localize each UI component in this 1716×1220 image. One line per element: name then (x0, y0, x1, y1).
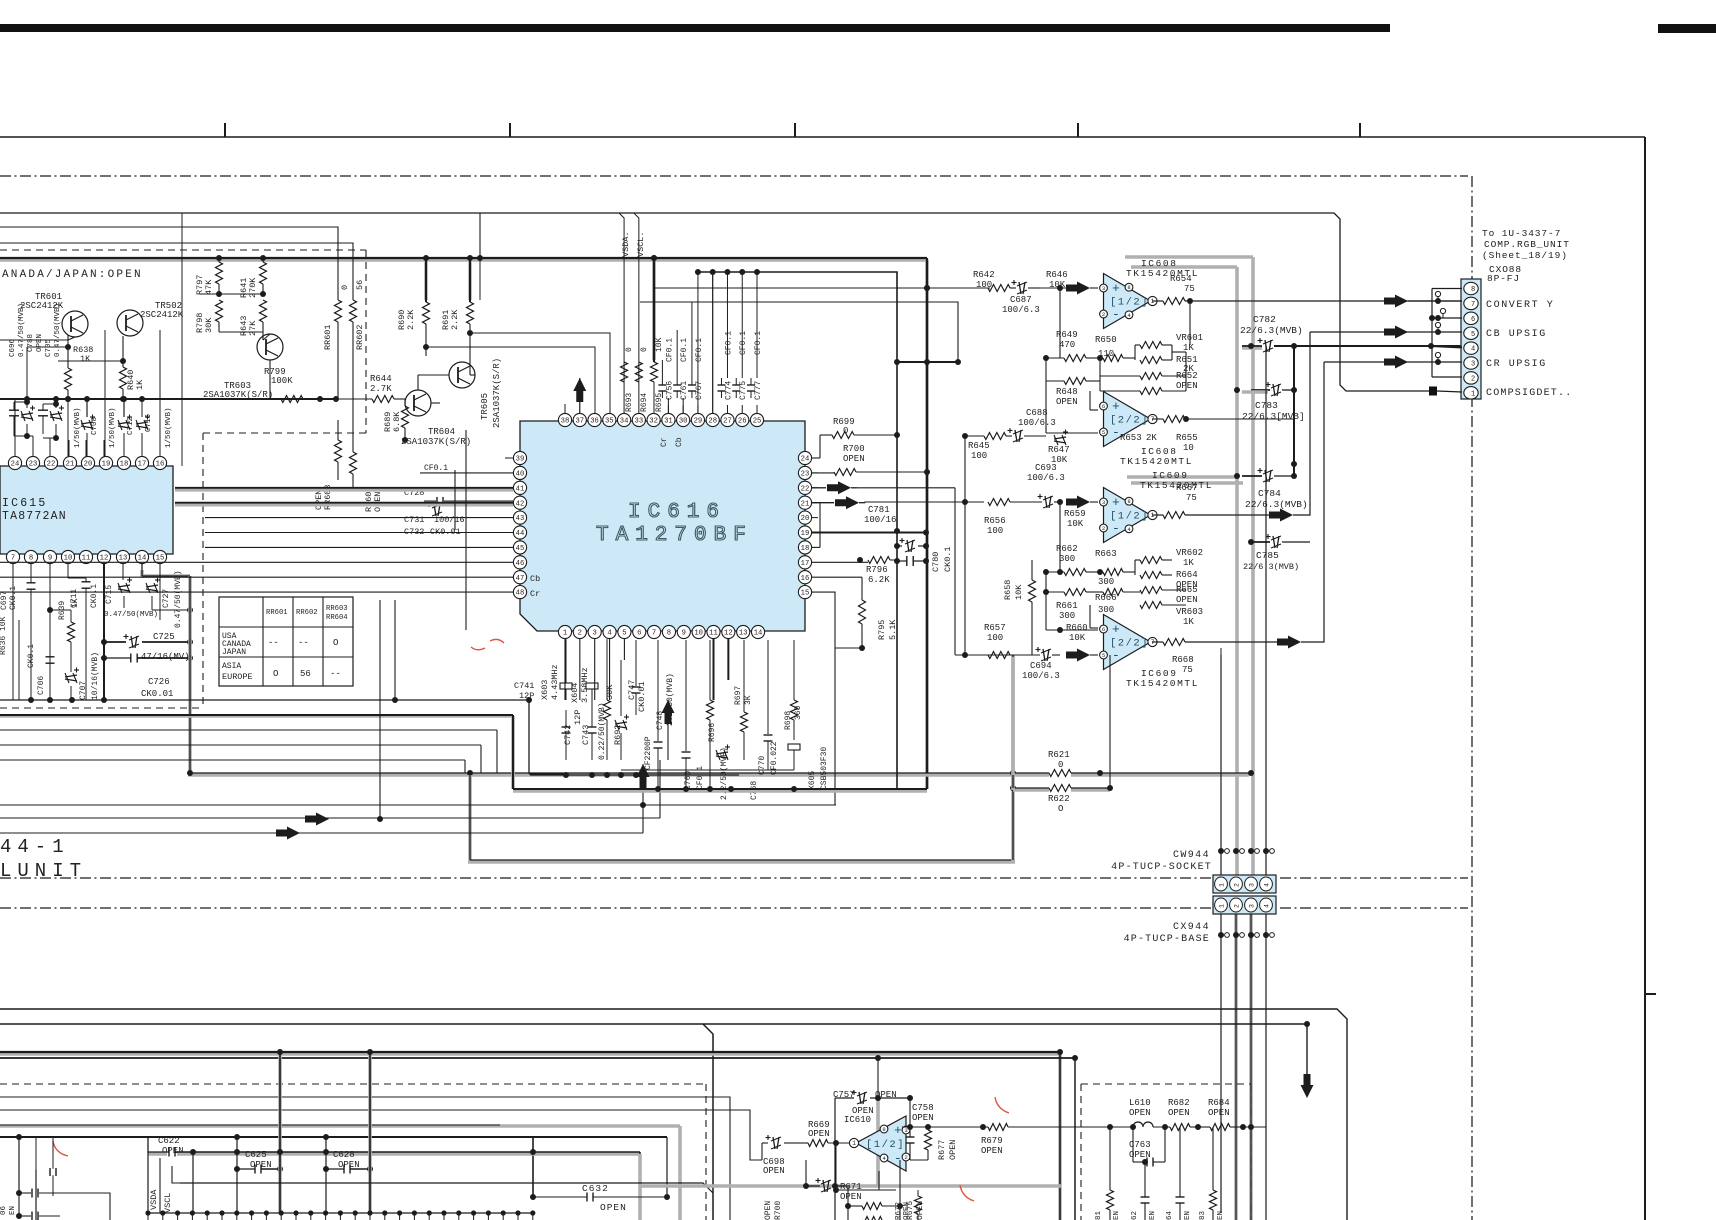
svg-text:VSDA.: VSDA. (621, 231, 631, 257)
feedback resistors below IC610 (862, 1203, 882, 1210)
resistor R798 30K (216, 300, 223, 322)
main supply bus y258 (0, 258, 927, 262)
wire pin16 (812, 576, 862, 578)
svg-text:OPEN: OPEN (852, 1106, 874, 1116)
svg-text:4.43MHz: 4.43MHz (550, 664, 560, 700)
svg-text:R662: R662 (1056, 544, 1078, 554)
svg-text:R636 10K: R636 10K (0, 616, 8, 655)
svg-text:R646: R646 (1046, 270, 1068, 280)
wire pin21 to IC609 (865, 501, 984, 504)
thick pin wires down (713, 639, 715, 700)
svg-text:7: 7 (11, 555, 15, 563)
svg-text:Cr: Cr (530, 589, 540, 599)
svg-text:OPEN: OPEN (1056, 397, 1078, 407)
junction jumpers above CW944 (1218, 848, 1224, 854)
svg-text:C767: C767 (695, 381, 704, 400)
svg-text:12: 12 (724, 630, 733, 638)
svg-text:1: 1 (1219, 883, 1226, 887)
svg-text:100/16: 100/16 (864, 515, 896, 525)
svg-text:8P-FJ: 8P-FJ (1487, 273, 1520, 284)
pin5 wire cb upsig (1310, 331, 1462, 333)
svg-text:OPEN: OPEN (1208, 1108, 1230, 1118)
svg-text:To 1U-3437-7: To 1U-3437-7 (1482, 228, 1561, 239)
gray loop IC609 (1127, 475, 1237, 479)
long vertical x160 (159, 330, 161, 456)
wire TR605 collector (469, 362, 471, 375)
wire y1183 (180, 1183, 713, 1193)
svg-text:22/6.3(MVB): 22/6.3(MVB) (1245, 499, 1308, 510)
transistor TR602 (117, 310, 143, 336)
svg-text:CF0.1: CF0.1 (680, 338, 689, 362)
svg-text:CX944: CX944 (1173, 922, 1210, 933)
svg-text:2.2K: 2.2K (406, 309, 416, 330)
svg-text:C625: C625 (245, 1150, 267, 1160)
op-amp IC608 2/2 (1104, 392, 1151, 447)
svg-text:0: 0 (340, 285, 350, 290)
wire x897 segment (897, 361, 927, 363)
svg-text:8: 8 (667, 630, 671, 638)
gray bus from IC615 down (188, 576, 192, 774)
resistor R693 0 (621, 362, 628, 382)
svg-text:470: 470 (1059, 340, 1075, 350)
svg-text:-: - (1112, 648, 1120, 663)
svg-text:8: 8 (1471, 286, 1475, 294)
svg-text:C782: C782 (1253, 314, 1276, 325)
svg-text:10: 10 (1183, 443, 1194, 453)
svg-text:OPEN: OPEN (600, 1202, 627, 1213)
svg-text:OPEN: OPEN (1168, 1108, 1190, 1118)
cap C712 (118, 415, 132, 431)
svg-text:11: 11 (709, 630, 718, 638)
wire y302 (640, 302, 958, 362)
svg-text:9: 9 (48, 555, 52, 563)
dash-dot unit border vertical right (1471, 176, 1473, 1220)
svg-text:C708: C708 (91, 417, 99, 435)
wire pin15 down (812, 592, 862, 648)
svg-text:3: 3 (1471, 361, 1475, 369)
svg-text:OPEN: OPEN (1129, 1108, 1151, 1118)
svg-text:C780: C780 (931, 552, 941, 572)
svg-text:CF2200P: CF2200P (644, 736, 653, 770)
IC616 left pins 39-48 (513, 451, 526, 464)
svg-text:1K: 1K (1183, 617, 1194, 627)
svg-text:R664: R664 (1176, 570, 1198, 580)
wire y715 thick (0, 714, 513, 718)
dash-dot unit border top (0, 175, 1468, 177)
wire y1137 thick (0, 1136, 667, 1138)
pin1 wire pad (1437, 391, 1462, 392)
svg-text:EN: EN (1217, 1211, 1225, 1220)
cap C708 (81, 415, 95, 431)
wire TR604 TR605 (431, 402, 440, 404)
svg-text:COMPSIGDET..: COMPSIGDET.. (1486, 388, 1572, 399)
svg-text:--: -- (330, 669, 341, 679)
svg-text:9: 9 (682, 630, 686, 638)
svg-text:OPEN: OPEN (808, 1129, 830, 1139)
pin stubs 31 30 (667, 398, 669, 413)
svg-text:CONVERT Y: CONVERT Y (1486, 300, 1554, 311)
transistor TR603 (257, 334, 283, 360)
resistor RR603 OPEN (335, 440, 342, 462)
svg-text:+: + (1112, 399, 1120, 414)
svg-text:2: 2 (578, 630, 582, 638)
pin38 stub (564, 404, 566, 413)
svg-text:21: 21 (801, 500, 810, 508)
transistor TR605 (449, 362, 475, 388)
IC615 bottom pins (6, 550, 19, 563)
svg-text:R796: R796 (866, 565, 888, 575)
long vertical x182 (181, 213, 183, 466)
svg-text:R653: R653 (1120, 433, 1142, 443)
svg-text:10K: 10K (1069, 633, 1086, 643)
svg-text:6: 6 (1102, 403, 1105, 410)
svg-text:C632: C632 (582, 1183, 609, 1194)
svg-text:30K: 30K (204, 317, 214, 333)
svg-text:C777: C777 (754, 381, 763, 400)
dash-dot separator y908 (0, 907, 1468, 909)
svg-text:IC616: IC616 (628, 501, 726, 524)
svg-text:36: 36 (590, 418, 599, 426)
svg-text:RR601: RR601 (323, 324, 333, 350)
ground loop box (468, 775, 472, 862)
wire left bus to TR601 (0, 339, 68, 341)
svg-text:0.47/50(MVB): 0.47/50(MVB) (54, 303, 62, 357)
left feed wires op-amp area (964, 436, 966, 655)
svg-text:1: 1 (1151, 298, 1155, 305)
svg-text:2SA1037K(S/R): 2SA1037K(S/R) (401, 437, 471, 447)
svg-text:2K: 2K (1146, 433, 1157, 443)
svg-text:OPEN: OPEN (1176, 595, 1198, 605)
svg-text:1/50(MVB): 1/50(MVB) (165, 407, 173, 448)
svg-text:10/16(MVB): 10/16(MVB) (91, 652, 100, 700)
svg-text:270K: 270K (248, 277, 258, 298)
frame line with ticks (0, 136, 1645, 138)
svg-text:3: 3 (1102, 285, 1105, 292)
svg-text:+: + (1112, 495, 1120, 510)
svg-text:6: 6 (637, 630, 641, 638)
bus corner to right y773 (188, 773, 1013, 777)
svg-text:CK0.1: CK0.1 (90, 584, 99, 608)
svg-text:23: 23 (801, 470, 810, 478)
svg-text:100: 100 (976, 280, 992, 290)
svg-text:45: 45 (516, 545, 525, 553)
vertical x380 (379, 600, 381, 818)
connector CX944 4P-TUCP-BASE (1213, 896, 1276, 914)
svg-text:83: 83 (1199, 1210, 1207, 1220)
svg-text:+: + (1112, 281, 1120, 296)
dashed vertical x706 (705, 1084, 707, 1220)
svg-text:44: 44 (516, 530, 525, 538)
dashed option box (0, 249, 366, 251)
wire y805 (0, 804, 836, 806)
svg-text:21: 21 (66, 461, 75, 469)
svg-text:R672: R672 (895, 1202, 903, 1220)
op-amp IC610 1/2 (856, 1116, 906, 1171)
svg-text:3: 3 (593, 630, 597, 638)
bottom dots row y1213 (148, 1212, 533, 1214)
svg-text:OPEN: OPEN (36, 334, 44, 352)
IC U616 TA1270BF block (520, 421, 805, 631)
connector CX088 8P-FJ (1461, 279, 1481, 399)
red mark 2 (490, 639, 504, 643)
svg-text:R648: R648 (1056, 387, 1078, 397)
resistor R694 0 (635, 362, 642, 382)
svg-text:VSCL: VSCL (163, 1193, 173, 1213)
left edge vertical stubs upper area (0, 339, 1, 341)
svg-text:300: 300 (1059, 554, 1075, 564)
svg-text:47: 47 (516, 575, 525, 583)
svg-text:X605: X605 (808, 771, 817, 790)
svg-text:12P: 12P (573, 710, 583, 725)
svg-text:2.2K: 2.2K (450, 309, 460, 330)
svg-text:C687: C687 (1010, 295, 1032, 305)
svg-text:--: -- (298, 638, 309, 648)
svg-text:11: 11 (82, 555, 91, 563)
svg-text:8: 8 (882, 1126, 885, 1133)
svg-text:OPEN: OPEN (912, 1113, 934, 1123)
svg-text:40: 40 (516, 470, 525, 478)
svg-text:+: + (1112, 622, 1120, 637)
svg-text:27K: 27K (248, 320, 258, 336)
bottom rail y775 (530, 774, 739, 776)
cap pair C696 C788 (13, 402, 15, 410)
svg-text:L610: L610 (1129, 1098, 1151, 1108)
wire y1052 thick (0, 1052, 1060, 1056)
svg-text:C688: C688 (1026, 408, 1048, 418)
wire TR603 to bus (263, 334, 270, 340)
svg-text:C706: C706 (37, 676, 46, 695)
svg-text:C731: C731 (404, 515, 424, 525)
table dashed leads (365, 250, 367, 433)
svg-text:2.7K: 2.7K (370, 384, 392, 394)
svg-text:O: O (273, 669, 278, 679)
svg-text:R621: R621 (1048, 750, 1070, 760)
svg-text:81: 81 (1095, 1210, 1103, 1220)
svg-text:5.1K: 5.1K (888, 619, 898, 640)
svg-text:13: 13 (119, 555, 128, 563)
svg-text:48: 48 (516, 590, 525, 598)
wire R690 feed (424, 260, 428, 300)
transistor TR604 (405, 390, 431, 416)
pin6 wire (1432, 317, 1462, 319)
svg-text:6.8K: 6.8K (392, 411, 402, 432)
svg-text:6.2K: 6.2K (868, 575, 890, 585)
svg-text:0: 0 (625, 347, 634, 352)
svg-text:6: 6 (1471, 316, 1475, 324)
resistor R639 1K (68, 622, 75, 642)
arrow pin22 (812, 487, 826, 489)
IC U615 TA8772AN block (0, 466, 173, 554)
svg-text:[1/2]: [1/2] (866, 1139, 905, 1151)
red mark near IC610 (995, 1097, 1009, 1113)
gray corner x680 down (678, 1126, 682, 1220)
svg-text:OPEN: OPEN (763, 1166, 785, 1176)
svg-text:CK0.1: CK0.1 (943, 546, 953, 572)
svg-text:C715: C715 (105, 585, 114, 604)
svg-text:C726: C726 (148, 677, 170, 687)
svg-text:42: 42 (516, 500, 525, 508)
svg-text:R645: R645 (968, 441, 990, 451)
svg-text:75: 75 (1186, 493, 1197, 503)
svg-text:R698: R698 (784, 711, 793, 730)
svg-text:VSDA: VSDA (149, 1189, 159, 1210)
IC616 top pins 38-25 (558, 413, 571, 426)
svg-text:18: 18 (801, 545, 810, 553)
wire IC616 pin39 stub (505, 457, 513, 459)
svg-text:0.47/50(MVB): 0.47/50(MVB) (18, 303, 26, 357)
bus corner down x927 (925, 260, 929, 789)
svg-text:0: 0 (640, 347, 649, 352)
right frame vertical (1644, 137, 1646, 1220)
svg-text:2SA1037K(S/R): 2SA1037K(S/R) (492, 358, 502, 428)
svg-text:22: 22 (47, 461, 56, 469)
wire pin36 up (470, 333, 610, 413)
svg-text:10K: 10K (1067, 519, 1084, 529)
wires IC616 left pins (420, 472, 513, 474)
svg-text:R642: R642 (973, 270, 995, 280)
resistor R695 10K (652, 260, 656, 360)
wire IC609b inputs (1090, 627, 1098, 629)
svg-text:75: 75 (1182, 665, 1193, 675)
svg-text:R659: R659 (1064, 509, 1086, 519)
wire pin12 thick (103, 563, 105, 700)
wire y1058 (0, 1057, 1075, 1059)
svg-text:44-1: 44-1 (0, 836, 70, 858)
wire x1060 down gray (1058, 1054, 1062, 1220)
bottom right vertical resistors (1107, 1190, 1114, 1210)
svg-text:ASIA: ASIA (222, 662, 241, 671)
svg-text:RR603: RR603 (326, 605, 348, 613)
svg-text:X603: X603 (540, 680, 550, 700)
svg-text:17: 17 (138, 461, 147, 469)
wire branch x713 down (703, 1024, 713, 1220)
svg-text:R668: R668 (1172, 655, 1194, 665)
svg-text:C770: C770 (758, 756, 767, 775)
svg-text:CF0.1: CF0.1 (665, 338, 674, 362)
svg-text:5: 5 (622, 630, 626, 638)
svg-text:LUNIT: LUNIT (0, 860, 87, 882)
wire COMPSIGDET vertical (1334, 213, 1430, 391)
wire y730 (0, 729, 497, 731)
svg-text:8: 8 (1127, 284, 1130, 291)
IC615 top pins (8, 456, 21, 469)
cap C716 (136, 415, 150, 431)
svg-text:7: 7 (652, 630, 656, 638)
svg-text:2: 2 (1102, 311, 1105, 318)
svg-text:C622: C622 (158, 1136, 180, 1146)
svg-text:RR602: RR602 (296, 609, 318, 617)
long vertical x105 (104, 330, 106, 456)
svg-text:0.47/50(MVB): 0.47/50(MVB) (174, 570, 183, 628)
svg-text:1K: 1K (1183, 558, 1194, 568)
rail dots y700 (28, 697, 34, 703)
svg-text:C705: C705 (45, 338, 53, 357)
svg-text:R661: R661 (1056, 601, 1078, 611)
resistor R797 47K (218, 258, 220, 262)
svg-text:RR601: RR601 (266, 609, 288, 617)
svg-text:EN: EN (1184, 1211, 1192, 1220)
red mark bottom-left (53, 1141, 68, 1156)
svg-text:4: 4 (607, 630, 611, 638)
svg-text:20: 20 (84, 461, 93, 469)
svg-text:17: 17 (801, 560, 810, 568)
svg-text:8: 8 (29, 555, 33, 563)
wire y288 r642 feed (655, 287, 990, 289)
bottom rail y789 thick (513, 789, 927, 793)
svg-text:100/6.3: 100/6.3 (1002, 305, 1040, 315)
svg-text:30: 30 (679, 418, 688, 426)
svg-text:12P: 12P (519, 691, 534, 701)
svg-text:34: 34 (620, 418, 629, 426)
wire corner x513 down (511, 716, 515, 789)
vertical harness wires (1220, 655, 1222, 876)
svg-text:C748: C748 (656, 711, 665, 730)
svg-text:-: - (1112, 425, 1120, 440)
svg-text:4: 4 (1264, 904, 1271, 908)
svg-text:C785: C785 (1256, 550, 1279, 561)
svg-text:EN: EN (9, 1206, 17, 1215)
IC615 bottom pin wires (12, 564, 14, 700)
svg-text:CW944: CW944 (1173, 850, 1210, 861)
svg-text:C763: C763 (1129, 1140, 1151, 1150)
svg-text:5: 5 (1102, 429, 1105, 436)
bottom-left extra vertical (52, 1137, 54, 1165)
dashed separator y1084 left (0, 1083, 706, 1085)
svg-text:VR603: VR603 (1176, 607, 1203, 617)
svg-text:300: 300 (1098, 577, 1114, 587)
svg-text:10K: 10K (1014, 584, 1024, 600)
svg-text:2: 2 (1234, 883, 1241, 887)
svg-text:100: 100 (971, 451, 987, 461)
svg-text:C784: C784 (1258, 488, 1281, 499)
resistor RR602 (350, 300, 357, 322)
wire x1307 arrow down (1306, 1024, 1308, 1075)
svg-text:CSB503F30: CSB503F30 (820, 747, 829, 790)
svg-text:OPEN: OPEN (764, 1201, 773, 1220)
svg-text:Cr: Cr (660, 437, 669, 447)
svg-text:CF0.1: CF0.1 (739, 331, 748, 355)
op-amp IC609 1/2 (1104, 488, 1151, 543)
svg-text:O: O (333, 638, 338, 648)
svg-text:R656: R656 (984, 516, 1006, 526)
svg-text:1K: 1K (80, 354, 91, 364)
wire y1125 gray bus (0, 1124, 680, 1128)
arrow up x668 (662, 700, 675, 724)
svg-text:0.22/50(MVB): 0.22/50(MVB) (598, 702, 607, 760)
svg-text:R694: R694 (640, 393, 649, 412)
svg-text:VR602: VR602 (1176, 548, 1203, 558)
svg-text:56: 56 (355, 280, 365, 290)
svg-text:R647: R647 (1048, 445, 1070, 455)
svg-text:47K: 47K (204, 279, 214, 295)
svg-text:37: 37 (575, 418, 584, 426)
svg-text:CF0.1: CF0.1 (754, 331, 763, 355)
svg-text:100/6.3: 100/6.3 (1022, 671, 1060, 681)
svg-text:100K: 100K (271, 376, 293, 386)
gray loop around IC608 (1125, 255, 1253, 259)
svg-text:O: O (1058, 804, 1063, 814)
svg-text:CB UPSIG: CB UPSIG (1486, 329, 1547, 340)
wire pin24-20 stubs (812, 457, 818, 459)
svg-text:2: 2 (1234, 904, 1241, 908)
svg-text:100/6.3: 100/6.3 (1018, 418, 1056, 428)
svg-text:R650: R650 (1095, 335, 1117, 345)
svg-text:OPEN: OPEN (843, 454, 865, 464)
dashed bottom-right box (1081, 1083, 1251, 1085)
svg-text:4P-TUCP-SOCKET: 4P-TUCP-SOCKET (1111, 862, 1212, 873)
wire IC608b inputs (1090, 409, 1098, 411)
wire junctions left (219, 293, 263, 295)
